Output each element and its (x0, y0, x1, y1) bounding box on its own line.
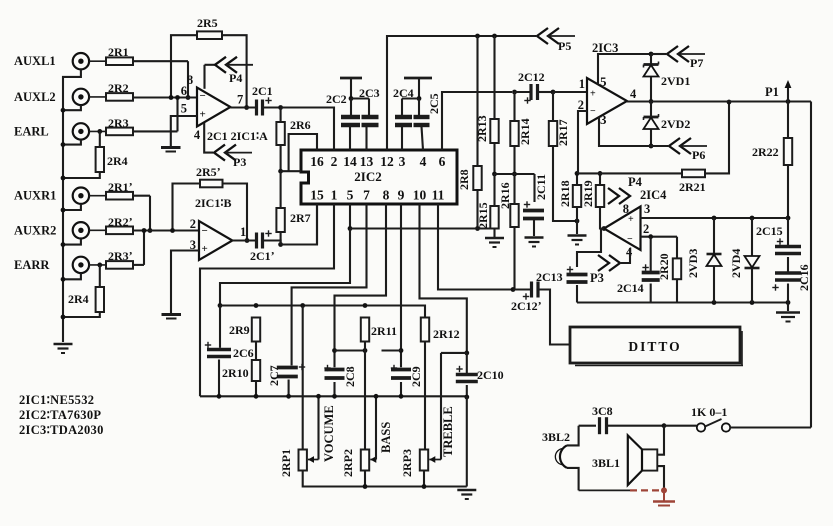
svg-text:15: 15 (310, 188, 324, 203)
svg-text:2C1 2IC1∶A: 2C1 2IC1∶A (207, 129, 268, 143)
svg-text:2: 2 (331, 154, 338, 169)
svg-text:P7: P7 (690, 56, 703, 70)
svg-text:2IC2∶TA7630P: 2IC2∶TA7630P (19, 408, 101, 422)
svg-text:BASS: BASS (379, 422, 393, 453)
svg-text:5: 5 (347, 188, 354, 203)
svg-text:2C6: 2C6 (233, 346, 254, 360)
svg-text:2R7: 2R7 (290, 211, 311, 225)
svg-text:DITTO: DITTO (628, 339, 681, 354)
svg-text:2R5ʼ: 2R5ʼ (196, 165, 221, 179)
svg-text:5: 5 (600, 74, 607, 89)
svg-text:2C8: 2C8 (343, 366, 357, 387)
svg-text:2: 2 (578, 98, 584, 112)
svg-text:2C5: 2C5 (427, 93, 441, 114)
svg-text:2R1ʼ: 2R1ʼ (108, 180, 133, 194)
svg-text:2R17: 2R17 (556, 119, 570, 146)
svg-text:2R3: 2R3 (108, 116, 129, 130)
svg-text:9: 9 (398, 188, 405, 203)
svg-text:4: 4 (194, 128, 201, 142)
svg-text:2IC2: 2IC2 (354, 169, 381, 184)
svg-text:10: 10 (413, 188, 427, 203)
svg-text:P6: P6 (692, 148, 705, 162)
svg-text:2R13: 2R13 (475, 115, 489, 142)
svg-text:16: 16 (310, 154, 324, 169)
svg-text:2IC1∶B: 2IC1∶B (195, 196, 231, 210)
svg-text:2RP3: 2RP3 (400, 449, 414, 477)
svg-text:2C4: 2C4 (393, 86, 414, 100)
svg-text:2C1ʼ: 2C1ʼ (250, 249, 275, 263)
svg-text:−: − (627, 234, 633, 245)
svg-text:2R22: 2R22 (752, 145, 779, 159)
svg-text:2IC3∶TDA2030: 2IC3∶TDA2030 (19, 423, 104, 437)
svg-text:2R5: 2R5 (197, 16, 218, 30)
svg-text:P4: P4 (229, 71, 242, 85)
svg-text:6: 6 (439, 154, 446, 169)
svg-text:14: 14 (343, 154, 357, 169)
svg-text:2RP1: 2RP1 (279, 449, 293, 477)
svg-text:2R10: 2R10 (222, 366, 249, 380)
svg-text:2C11: 2C11 (534, 174, 548, 200)
svg-text:2R16: 2R16 (498, 182, 512, 209)
svg-text:2C7: 2C7 (267, 365, 281, 386)
svg-text:2C3: 2C3 (359, 86, 380, 100)
svg-text:2R12: 2R12 (433, 327, 460, 341)
svg-text:2R20: 2R20 (657, 253, 671, 280)
svg-text:4: 4 (420, 154, 427, 169)
svg-text:3BL1: 3BL1 (592, 456, 620, 470)
svg-text:+: + (590, 89, 596, 100)
svg-text:3: 3 (399, 154, 406, 169)
svg-text:2R19: 2R19 (581, 180, 595, 207)
svg-text:2R4: 2R4 (107, 154, 128, 168)
svg-text:11: 11 (432, 188, 445, 203)
svg-text:2C12: 2C12 (518, 70, 545, 84)
svg-text:2R15: 2R15 (476, 202, 490, 229)
svg-text:3C8: 3C8 (592, 404, 613, 418)
svg-text:P3: P3 (590, 271, 604, 285)
svg-text:−: − (202, 225, 208, 237)
svg-text:1K 0–1: 1K 0–1 (691, 405, 727, 419)
svg-text:1: 1 (579, 77, 585, 91)
svg-text:2R2: 2R2 (108, 81, 129, 95)
svg-text:12: 12 (380, 154, 394, 169)
svg-text:2C2: 2C2 (326, 92, 347, 106)
svg-text:AUXL2: AUXL2 (14, 90, 56, 104)
svg-text:+: + (628, 214, 634, 225)
svg-text:2VD2: 2VD2 (661, 117, 690, 131)
svg-text:+: + (202, 243, 208, 255)
svg-text:2R9: 2R9 (229, 323, 250, 337)
svg-text:3BL2: 3BL2 (542, 430, 570, 444)
svg-text:3: 3 (644, 202, 650, 216)
svg-text:EARL: EARL (14, 124, 49, 138)
svg-text:7: 7 (363, 188, 370, 203)
svg-text:2C10: 2C10 (477, 368, 504, 382)
svg-text:2C12ʼ: 2C12ʼ (511, 299, 542, 313)
svg-text:+: + (200, 109, 206, 121)
svg-text:P4: P4 (628, 175, 643, 189)
svg-text:P5: P5 (558, 39, 571, 53)
svg-text:VOCUME: VOCUME (322, 405, 336, 462)
svg-text:2C14: 2C14 (617, 281, 644, 295)
svg-text:2R6: 2R6 (290, 118, 311, 132)
svg-text:P3: P3 (233, 155, 246, 169)
svg-text:2R11: 2R11 (371, 324, 397, 338)
svg-text:2C16: 2C16 (797, 264, 811, 291)
svg-text:AUXL1: AUXL1 (14, 54, 56, 68)
svg-text:2R2ʼ: 2R2ʼ (108, 215, 133, 229)
svg-text:2R3ʼ: 2R3ʼ (108, 249, 133, 263)
svg-text:TREBLE: TREBLE (441, 406, 455, 457)
svg-text:13: 13 (360, 154, 374, 169)
svg-text:2C15: 2C15 (756, 224, 783, 238)
svg-text:2IC1∶NE5532: 2IC1∶NE5532 (19, 393, 94, 407)
svg-text:7: 7 (237, 93, 243, 107)
svg-text:2VD3: 2VD3 (686, 249, 700, 278)
svg-text:AUXR2: AUXR2 (14, 223, 56, 237)
svg-text:1: 1 (240, 225, 246, 239)
svg-text:2: 2 (190, 217, 196, 231)
svg-text:−: − (590, 106, 596, 117)
svg-text:4: 4 (630, 87, 637, 101)
svg-text:2C13: 2C13 (536, 270, 563, 284)
svg-text:P1: P1 (765, 85, 779, 99)
svg-text:2R18: 2R18 (558, 180, 572, 207)
svg-text:2R14: 2R14 (518, 118, 532, 145)
svg-text:2C1: 2C1 (252, 84, 273, 98)
svg-text:2C9: 2C9 (409, 366, 423, 387)
svg-text:6: 6 (181, 84, 187, 98)
svg-text:AUXR1: AUXR1 (14, 189, 56, 203)
svg-text:2R8: 2R8 (457, 169, 471, 190)
svg-text:2R4: 2R4 (68, 292, 89, 306)
svg-text:1: 1 (331, 188, 338, 203)
svg-text:−: − (200, 90, 206, 102)
svg-text:8: 8 (383, 188, 390, 203)
svg-text:2R1: 2R1 (108, 45, 129, 59)
svg-text:5: 5 (181, 102, 187, 116)
svg-text:2: 2 (643, 222, 649, 236)
svg-text:2VD4: 2VD4 (729, 249, 743, 278)
svg-text:2IC3: 2IC3 (592, 41, 618, 55)
svg-text:8: 8 (187, 73, 193, 87)
svg-text:2R21: 2R21 (679, 180, 706, 194)
svg-text:EARR: EARR (14, 258, 50, 272)
svg-text:2IC4: 2IC4 (640, 188, 667, 202)
svg-text:3: 3 (600, 112, 607, 127)
svg-text:2RP2: 2RP2 (341, 449, 355, 477)
svg-text:2VD1: 2VD1 (661, 74, 690, 88)
